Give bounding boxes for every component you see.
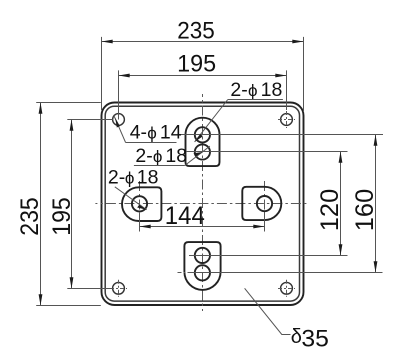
svg-text:ϕ: ϕ: [153, 147, 163, 166]
horizontal centerline: [95, 203, 309, 205]
svg-text:14: 14: [160, 122, 182, 144]
svg-text:195: 195: [177, 51, 216, 78]
vertical centerline: [202, 94, 204, 311]
top boss upper hole: [195, 127, 210, 142]
label 2-phi18 middle with leader to top boss lower hole: [134, 145, 210, 167]
dimension 120 right: [186, 152, 348, 256]
svg-text:ϕ: ϕ: [248, 81, 258, 100]
corner hole top-left: [113, 114, 125, 126]
right boss hole: [257, 196, 272, 211]
svg-text:235: 235: [16, 197, 44, 236]
label 2-phi18 left with leader to left boss hole: [108, 166, 159, 209]
plate outer outline: [102, 103, 304, 306]
corner hole bottom-left: [113, 282, 125, 294]
svg-text:4-: 4-: [130, 122, 147, 144]
right boss outline: [242, 187, 281, 220]
plate inner outline: [105, 106, 299, 301]
svg-text:120: 120: [316, 189, 344, 232]
svg-text:195: 195: [48, 197, 76, 236]
top slotted boss outline: [186, 118, 220, 166]
svg-text:2-: 2-: [108, 166, 125, 188]
top boss lower hole: [195, 144, 210, 159]
corner hole bottom-right: [281, 282, 293, 294]
svg-text:2-: 2-: [135, 145, 152, 167]
bottom boss lower hole: [195, 265, 210, 280]
right boss centerline: [264, 181, 266, 221]
svg-text:18: 18: [261, 79, 283, 101]
bottom slotted boss outline: [184, 242, 220, 290]
label delta-35 thickness with leader: [245, 288, 329, 352]
left boss centerline: [139, 181, 141, 221]
svg-text:2-: 2-: [230, 79, 247, 101]
dimension 235 left: [16, 103, 101, 306]
svg-text:160: 160: [351, 189, 379, 232]
label 4-phi14 with leader to corner hole: [114, 115, 182, 144]
dimension 195 top: [119, 51, 287, 120]
dimension 144: [140, 202, 265, 232]
svg-text:35: 35: [301, 325, 329, 352]
dimension 195 left: [48, 120, 113, 289]
left boss outline: [122, 187, 161, 221]
label 2-phi18 top with leader to top boss upper hole: [195, 79, 283, 142]
svg-text:235: 235: [177, 17, 215, 44]
corner hole centermark ticks: [110, 111, 295, 297]
svg-text:ϕ: ϕ: [125, 168, 135, 187]
svg-text:144: 144: [165, 202, 205, 230]
dimension 235 top: [102, 17, 304, 112]
left boss hole: [132, 196, 147, 211]
svg-text:18: 18: [165, 145, 187, 167]
svg-text:ϕ: ϕ: [147, 124, 157, 143]
bottom boss upper hole: [195, 248, 210, 263]
dimension 160 right: [178, 135, 384, 273]
svg-text:δ: δ: [291, 326, 302, 348]
svg-text:18: 18: [137, 166, 159, 188]
corner hole top-right: [281, 114, 293, 126]
